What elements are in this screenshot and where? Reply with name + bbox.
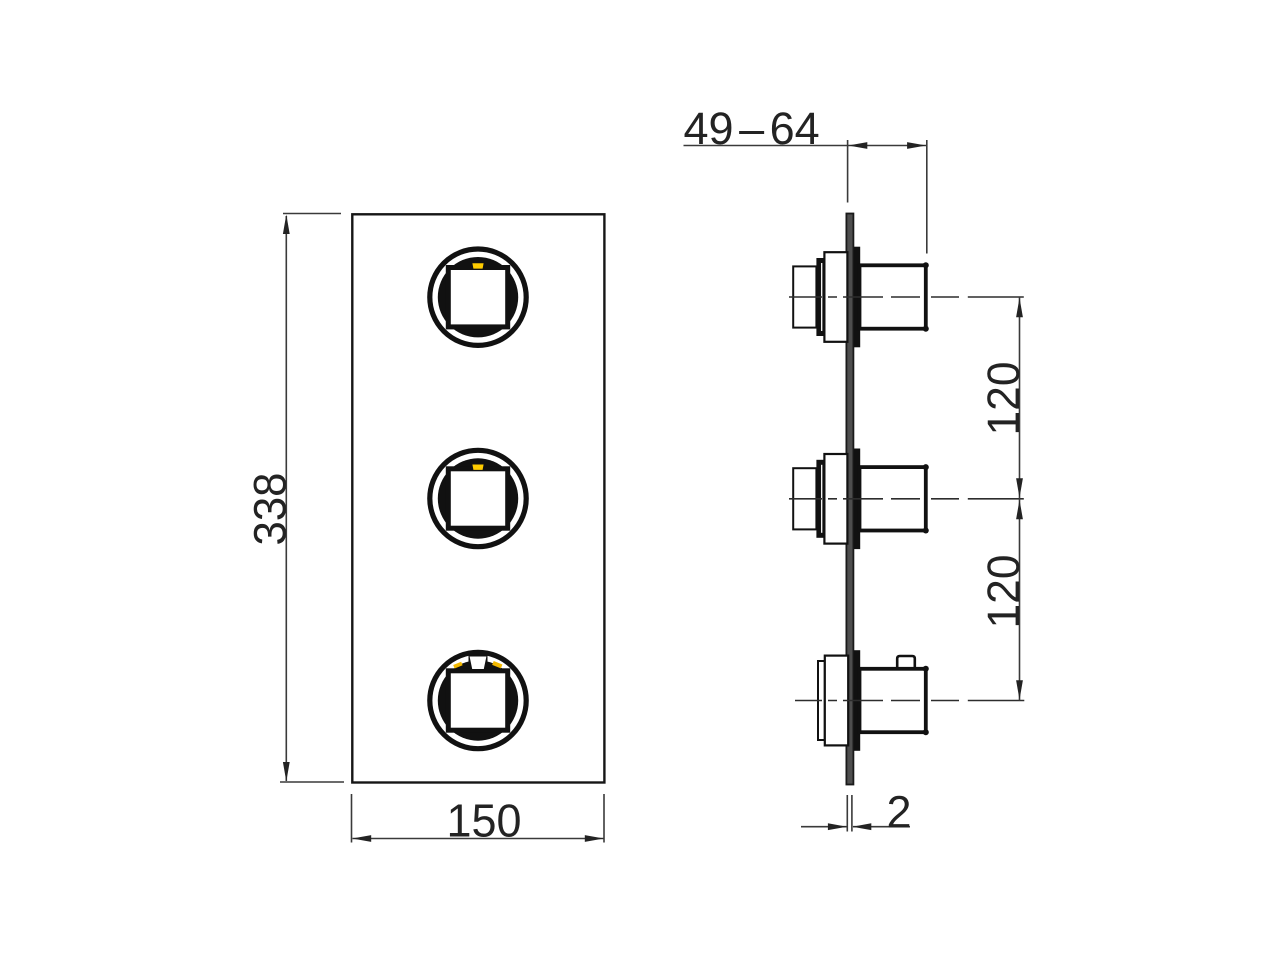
front view: faceplate rectangle 150x338 <box>352 214 604 782</box>
dim 2: extension lines and dimension lines <box>801 795 910 832</box>
handle 2 collar (black) <box>816 460 824 538</box>
handle 3 escutcheon <box>825 656 848 746</box>
knob 3 top tab (black) <box>469 652 488 662</box>
handle 1 escutcheon <box>824 252 847 342</box>
svg-text:338: 338 <box>245 473 296 546</box>
handle 1 wall flange (black) <box>854 247 860 348</box>
side view: wall plate (2mm) <box>846 214 853 785</box>
handle 1 end cap <box>793 266 816 327</box>
centerline handle 1 <box>789 296 1024 298</box>
knob 3 white pointer notch <box>470 657 487 670</box>
dim 120 arrowhead up (row 2) <box>1016 500 1023 520</box>
dim 49-64: extension lines and dimension line <box>684 140 927 254</box>
handle 2 escutcheon <box>824 454 847 544</box>
dim 150 arrowhead right <box>585 835 604 842</box>
knob 1 outer ring <box>430 249 526 345</box>
handle 1 valve body <box>860 265 926 328</box>
handle 2 end cap <box>793 468 816 529</box>
knob 3 outer ring <box>430 652 526 748</box>
handle 3 front ring <box>818 661 825 740</box>
dim 150: extension lines and dimension line <box>352 794 605 843</box>
centerline handle 2 <box>789 498 1024 500</box>
handle 3 valve body <box>860 669 926 732</box>
handle 2 body corner dot bottom <box>923 528 929 534</box>
handle 3 stop button <box>897 656 915 669</box>
dim 120 arrowhead down (row 3) <box>1016 680 1023 700</box>
dim 49-64 arrowhead left <box>848 142 867 149</box>
dim 120 arrowhead down (row 2) <box>1016 478 1023 498</box>
knob 2 (middle) inner disc <box>438 458 518 538</box>
dim 49-64 arrowhead right <box>907 142 926 149</box>
handle 2 wall flange (black) <box>854 449 860 550</box>
handle 2 body corner dot top <box>923 464 929 470</box>
handle 1 collar highlight <box>821 263 823 331</box>
dim 120/120: dimension line <box>1019 297 1021 701</box>
dim 120 arrowhead up (row 1) <box>1016 298 1023 318</box>
knob 2 square handle <box>448 469 507 528</box>
handle 2 valve body <box>860 467 926 530</box>
handle 1 body corner dot bottom <box>923 326 929 332</box>
centerline handle 3 <box>795 700 1024 702</box>
handle 3 body corner dot bottom <box>923 729 929 735</box>
svg-text:150: 150 <box>447 795 522 847</box>
handle 3 body corner dot top <box>923 666 929 672</box>
knob 3 right yellow tick <box>492 661 502 668</box>
svg-text:2: 2 <box>887 787 912 838</box>
knob 2 outer ring <box>430 450 526 546</box>
knob 3 left yellow tick <box>453 662 462 669</box>
dim 338 arrowhead down <box>283 762 290 782</box>
dim 338 arrowhead up <box>283 215 290 235</box>
knob 1 (top) inner disc <box>438 257 518 337</box>
knob 2 yellow index mark <box>472 465 483 470</box>
svg-text:120: 120 <box>978 555 1029 629</box>
handle 1 body corner dot top <box>923 262 929 268</box>
knob 3 square handle <box>448 671 507 730</box>
dim 338: extension lines and dimension line <box>280 214 344 783</box>
svg-text:49–64: 49–64 <box>684 103 820 154</box>
knob 3 (bottom thermostat) inner disc <box>438 660 518 740</box>
handle 1 collar (black) <box>816 258 824 336</box>
dim 150 arrowhead left <box>352 835 371 842</box>
handle 3 wall flange (black) <box>854 650 860 751</box>
handle 2 collar highlight <box>821 465 823 533</box>
knob 1 yellow index mark <box>472 263 483 268</box>
knob 1 square handle <box>448 268 507 327</box>
dim 2 arrowhead right <box>828 823 847 830</box>
svg-text:120: 120 <box>978 362 1029 436</box>
dim 2 arrowhead left <box>852 823 871 830</box>
